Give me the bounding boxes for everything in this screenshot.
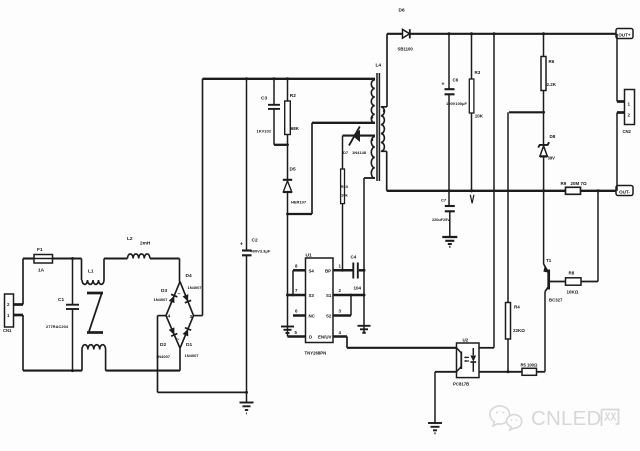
watermark text CNLED <box>531 407 602 430</box>
transformer L4 <box>371 63 385 182</box>
wire OUT- rail <box>387 189 616 192</box>
node arrow at R3 bottom <box>470 189 474 203</box>
wire OUT+ to opto LED vertical <box>479 34 494 348</box>
inductor L2 <box>127 236 151 259</box>
wire snubber return to drain <box>286 123 375 216</box>
bridge rectifier diamond <box>166 282 194 349</box>
svg-text:OUT-: OUT- <box>619 190 630 195</box>
svg-text:D: D <box>309 335 312 340</box>
node OUT+ terminal <box>616 29 633 39</box>
wire opto transistor emitter to ground <box>435 372 457 423</box>
wire node A horizontal <box>509 111 545 114</box>
ground (bias/source net) <box>358 326 371 333</box>
svg-text:D2: D2 <box>160 342 166 348</box>
watermark logo (WeChat bubbles) <box>490 406 522 430</box>
svg-text:U2: U2 <box>463 338 469 343</box>
diode D6 <box>398 8 414 52</box>
svg-text:L2: L2 <box>127 236 133 242</box>
wire opto LED cathode to R5 <box>479 371 522 373</box>
wire line net: CN1 to F1 <box>23 259 34 305</box>
wire U1 pin 1 BP net <box>333 269 366 272</box>
svg-text:100V100μF: 100V100μF <box>446 101 467 106</box>
svg-text:1N4007: 1N4007 <box>185 353 200 358</box>
capacitor C2 <box>240 79 271 402</box>
wire B+ rail <box>203 77 376 80</box>
wire T1 base <box>549 281 566 283</box>
label D3 <box>154 288 169 302</box>
label D1 <box>185 342 200 358</box>
svg-text:D7: D7 <box>343 150 349 155</box>
svg-text:22KΩ: 22KΩ <box>513 328 525 333</box>
wire L2 to bridge top <box>150 259 180 282</box>
wire U1 pin 6 stub <box>293 314 306 317</box>
svg-text:S2: S2 <box>326 314 332 319</box>
svg-text:S1: S1 <box>326 293 332 298</box>
svg-text:104: 104 <box>354 286 362 291</box>
svg-text:1A: 1A <box>38 268 45 274</box>
svg-text:BP: BP <box>325 268 331 273</box>
svg-text:10k: 10k <box>341 193 348 198</box>
svg-text:1N4007: 1N4007 <box>154 297 169 302</box>
svg-text:R3: R3 <box>475 70 481 75</box>
svg-text:R6: R6 <box>549 59 555 64</box>
svg-text:D5: D5 <box>290 167 296 173</box>
zener D8 <box>538 112 556 264</box>
svg-text:EN/UV: EN/UV <box>318 335 331 340</box>
svg-text:R4: R4 <box>514 305 520 310</box>
svg-text:SB1100: SB1100 <box>398 47 414 52</box>
ground (primary, below C2) <box>240 403 254 414</box>
wire bridge minus to primary ground <box>158 316 249 394</box>
svg-text:1N4007: 1N4007 <box>188 285 203 290</box>
connector CN2 <box>617 34 635 191</box>
svg-text:D6: D6 <box>399 8 405 14</box>
svg-text:2.2K: 2.2K <box>547 82 557 87</box>
svg-text:PC817B: PC817B <box>453 382 469 387</box>
op-amp U1 TNY268PN switcher IC <box>305 253 334 356</box>
wire bridge plus up to B+ rail <box>194 79 203 316</box>
resistor R2 <box>285 79 300 145</box>
svg-text:S3: S3 <box>309 293 315 298</box>
svg-text:TNY268PN: TNY268PN <box>305 351 327 356</box>
wire secondary top to OUT+ rail <box>381 34 387 107</box>
optocoupler U2 PC817 <box>453 338 479 387</box>
svg-text:220uF25V: 220uF25V <box>432 218 450 222</box>
svg-text:D8: D8 <box>550 134 556 139</box>
wire secondary bottom to OUT- rail <box>381 151 387 191</box>
svg-text:R2: R2 <box>290 93 296 99</box>
wire U1 pin 4 EN/UV net <box>333 337 457 348</box>
svg-text:CNLED: CNLED <box>531 407 602 430</box>
resistor R3 <box>469 34 484 191</box>
svg-text:68K: 68K <box>291 126 300 131</box>
U1 pin numbers <box>295 264 342 336</box>
resistor R10 <box>341 136 349 271</box>
svg-text:D3: D3 <box>161 288 167 294</box>
capacitor C4 <box>351 255 362 291</box>
svg-text:F1: F1 <box>37 247 43 253</box>
svg-text:C2: C2 <box>252 238 258 244</box>
svg-text:R10: R10 <box>341 184 349 189</box>
svg-text:BC327: BC327 <box>549 298 563 303</box>
svg-text:D1: D1 <box>186 342 192 348</box>
svg-text:R9: R9 <box>561 181 567 186</box>
svg-text:1KV102: 1KV102 <box>257 129 272 134</box>
wire F1 to L1 top <box>53 257 82 260</box>
resistor R4 <box>506 112 526 373</box>
ground (IC left) <box>281 327 294 334</box>
svg-text:400V3.3μF: 400V3.3μF <box>251 249 271 254</box>
svg-text:+: + <box>240 242 243 248</box>
wire neutral net bottom <box>23 315 180 372</box>
svg-text:277RAC204: 277RAC204 <box>46 324 69 329</box>
svg-text:NC: NC <box>309 314 316 319</box>
svg-text:3: 3 <box>190 314 193 320</box>
label D2 <box>156 342 171 359</box>
diode D4 (bridge upper-right) <box>182 294 191 303</box>
svg-text:4: 4 <box>168 314 171 320</box>
wire aux winding return to ground <box>364 178 375 333</box>
svg-text:U1: U1 <box>306 253 312 259</box>
watermark glyph 网 <box>602 410 619 427</box>
svg-text:2mH: 2mH <box>140 241 151 247</box>
svg-text:R8: R8 <box>569 271 575 276</box>
diode D2 (bridge lower-left) <box>168 327 177 336</box>
diode D1 (bridge lower-right) <box>182 328 191 337</box>
capacitor C7 <box>432 191 455 236</box>
svg-text:L1: L1 <box>88 269 94 275</box>
resistor R6 <box>541 34 557 113</box>
svg-text:~: ~ <box>178 292 181 298</box>
svg-text:OUT+: OUT+ <box>618 33 630 38</box>
svg-text:CN2: CN2 <box>623 129 632 134</box>
svg-text:C7: C7 <box>441 198 447 203</box>
svg-text:~: ~ <box>177 337 180 343</box>
resistor R9 (current sense in OUT- rail) <box>561 181 588 194</box>
diode D3 (bridge upper-left) <box>167 294 177 306</box>
svg-text:D4: D4 <box>186 273 192 279</box>
label D4 <box>186 273 203 290</box>
diode D7 <box>343 127 376 155</box>
wire C3 bottom to R2 bottom <box>274 143 289 146</box>
wire U1 pin 5 stub <box>288 335 306 338</box>
svg-text:R5 100Ω: R5 100Ω <box>521 363 539 368</box>
diode D5 <box>283 145 307 214</box>
svg-text:L4: L4 <box>376 63 382 69</box>
svg-text:S4: S4 <box>309 268 315 273</box>
fuse F1 <box>34 247 53 274</box>
svg-text:1N4148: 1N4148 <box>352 150 367 155</box>
svg-text:+: + <box>442 82 445 88</box>
resistor R8 <box>566 191 599 295</box>
transistor T1 (PNP) <box>543 258 563 372</box>
wire OUT+ rail <box>387 32 616 35</box>
ground (below C7) <box>442 237 457 247</box>
wire CN1 pin stubs <box>14 305 24 316</box>
node OUT- terminal <box>616 186 633 196</box>
svg-text:10K: 10K <box>475 114 484 119</box>
wire source vertical at IC left <box>286 214 289 337</box>
svg-text:20M 7Ω: 20M 7Ω <box>571 181 588 186</box>
connector CN1 <box>3 294 14 333</box>
svg-text:10KΩ: 10KΩ <box>567 290 579 295</box>
wire L1 to L2 <box>104 257 128 259</box>
inductor L1 common-mode choke <box>82 259 106 371</box>
wire U1 pin 8 stub <box>293 270 306 295</box>
ground (below opto) <box>428 423 442 433</box>
svg-text:C1: C1 <box>58 297 64 303</box>
wire U1 pin 2 stub <box>333 294 366 297</box>
capacitor C3 <box>257 79 281 145</box>
svg-text:C6: C6 <box>453 78 459 83</box>
svg-text:CN1: CN1 <box>3 328 12 333</box>
svg-text:C4: C4 <box>351 255 357 260</box>
capacitor C6 <box>442 34 468 191</box>
svg-text:T1: T1 <box>546 258 552 263</box>
resistor R5 <box>521 363 546 376</box>
capacitor C1 <box>46 259 79 371</box>
svg-text:C3: C3 <box>261 96 267 102</box>
svg-text:39V: 39V <box>548 156 556 161</box>
wire U1 pin 3 stub <box>333 295 351 316</box>
wire U1 pin 7 stub <box>288 294 306 297</box>
svg-text:HER107: HER107 <box>291 200 307 205</box>
